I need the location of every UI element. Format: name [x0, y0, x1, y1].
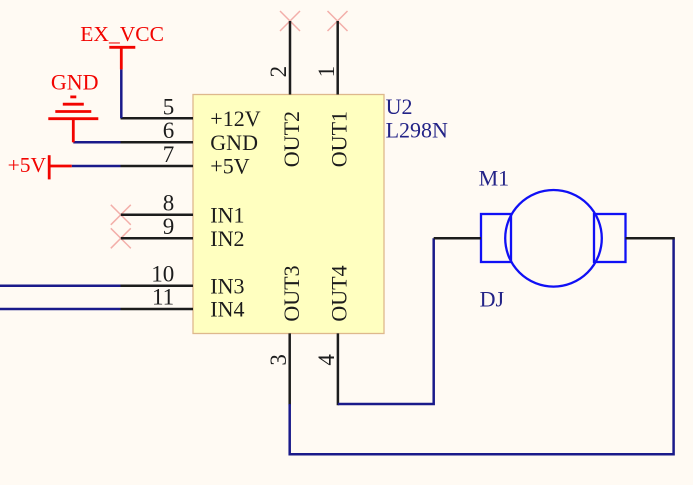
pin 4 — [337, 333, 340, 405]
svg-text:IN4: IN4 — [210, 297, 244, 322]
pin 7 — [121, 165, 194, 168]
svg-text:OUT3: OUT3 — [279, 265, 304, 321]
svg-text:8: 8 — [163, 191, 175, 216]
svg-text:U2: U2 — [386, 94, 413, 119]
wire pin3 to motor right — [290, 238, 674, 454]
svg-text:GND: GND — [210, 130, 258, 155]
motor M1: right terminal — [594, 214, 626, 262]
svg-text:OUT2: OUT2 — [279, 111, 304, 167]
no-connect X pin 1 — [328, 11, 348, 31]
wire +5V to pin7 — [72, 165, 121, 168]
svg-text:6: 6 — [163, 118, 175, 143]
power port EX_VCC bar — [109, 47, 135, 69]
svg-text:GND: GND — [51, 70, 99, 95]
wire to pin10 — [0, 285, 121, 288]
svg-text:IN3: IN3 — [210, 273, 244, 298]
no-connect X pin 2 — [280, 11, 300, 31]
svg-text:+5V: +5V — [8, 153, 47, 177]
motor M1: rotor circle — [505, 190, 602, 287]
pin 11 — [121, 308, 194, 311]
svg-text:DJ: DJ — [480, 287, 505, 312]
svg-text:OUT1: OUT1 — [326, 111, 351, 167]
no-connect X pin 8 — [111, 205, 131, 225]
motor pin 1 (left) — [434, 237, 481, 240]
wire pin4 to motor left — [338, 238, 434, 404]
svg-text:4: 4 — [314, 354, 339, 366]
wire EX_VCC to pin5 — [120, 69, 123, 118]
pin 3 — [288, 333, 291, 405]
pin 1 — [336, 21, 339, 95]
svg-text:+5V: +5V — [210, 154, 249, 179]
svg-text:IN2: IN2 — [210, 226, 244, 251]
ground symbol GND — [48, 97, 98, 142]
pin 6 — [121, 141, 194, 144]
svg-text:3: 3 — [266, 354, 291, 366]
svg-text:11: 11 — [152, 285, 174, 310]
wire GND to pin6 — [73, 141, 120, 144]
pin 5 — [121, 117, 194, 120]
pin 9 — [121, 237, 193, 240]
motor pin 2 (right) — [626, 237, 675, 240]
power port +5V bar — [49, 155, 71, 179]
svg-text:7: 7 — [163, 142, 175, 167]
svg-text:1: 1 — [314, 66, 339, 78]
motor M1: left terminal — [481, 214, 511, 262]
IC U2 body — [193, 95, 384, 334]
svg-text:10: 10 — [151, 262, 174, 287]
svg-text:2: 2 — [266, 66, 291, 78]
svg-text:EX_VCC: EX_VCC — [80, 22, 164, 46]
no-connect X pin 9 — [111, 228, 131, 248]
svg-text:9: 9 — [163, 214, 175, 239]
pin 8 — [121, 214, 193, 217]
wire to pin11 — [0, 308, 121, 311]
svg-text:OUT4: OUT4 — [326, 265, 351, 321]
svg-text:+12V: +12V — [210, 106, 260, 131]
svg-text:5: 5 — [163, 94, 175, 119]
pin 10 — [121, 285, 194, 288]
svg-text:M1: M1 — [479, 166, 510, 191]
pin 2 — [289, 21, 292, 95]
svg-text:L298N: L298N — [386, 117, 448, 142]
svg-text:IN1: IN1 — [210, 202, 244, 227]
